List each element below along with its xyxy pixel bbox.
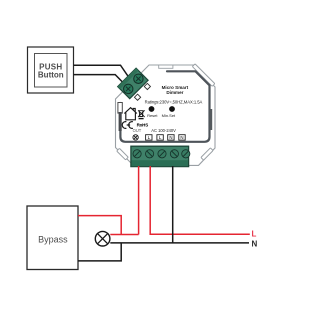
screw pin 3 [158, 150, 166, 158]
screw pin 1 [133, 150, 141, 158]
button Reset [149, 106, 155, 112]
wire L red: terminal 2 to mains L [150, 166, 250, 234]
svg-text:RoHS: RoHS [137, 122, 149, 127]
dimmer module U1 body outline [116, 65, 216, 165]
top mounting tab [159, 65, 173, 68]
svg-text:N: N [169, 135, 172, 140]
svg-text:AC 100-240V: AC 100-240V [151, 128, 176, 133]
terminal legend: lamp symbol [133, 135, 138, 140]
terminal legend: N [179, 135, 185, 140]
terminal legend: L [146, 135, 152, 140]
svg-text:Reset: Reset [147, 113, 158, 118]
svg-text:Bypass: Bypass [38, 235, 68, 245]
wire push-button upper to dimmer switch terminal [74, 65, 130, 77]
push button S1 [28, 47, 74, 93]
bypass box [27, 206, 78, 270]
svg-text:N: N [180, 135, 183, 140]
screw terminal 1 [122, 82, 135, 95]
svg-text:N: N [252, 239, 258, 248]
right mounting tab dark [210, 109, 213, 130]
left mounting slot [118, 103, 122, 114]
lamp E1 [95, 231, 110, 246]
corner flap bottom-right [201, 148, 213, 160]
terminal legend: L [157, 135, 163, 140]
wire entry hole A [144, 83, 150, 89]
corner flap bottom-left [117, 148, 129, 160]
wire push-button lower to dimmer switch terminal [74, 75, 124, 83]
button Min.Set [169, 106, 175, 112]
icon CE mark [122, 122, 133, 129]
wire N black: terminal 4, lamp, bypass to mains N [78, 166, 249, 261]
svg-text:Min.Set: Min.Set [162, 113, 176, 118]
left mounting tab dark [119, 112, 122, 131]
icon indoor-use house [124, 108, 137, 120]
wire entry hole B [134, 94, 140, 100]
svg-text:OUT: OUT [133, 128, 142, 133]
screw pin 4 [170, 150, 178, 158]
svg-text:L: L [252, 230, 257, 239]
svg-text:Ratings:230V~,50HZ,MAX:1.5A: Ratings:230V~,50HZ,MAX:1.5A [145, 99, 203, 104]
wire OUT red: terminal 1 to lamp and bypass [78, 166, 139, 235]
corner flap top-right [192, 64, 214, 86]
icon WEEE crossed-out bin [138, 110, 145, 118]
terminal legend: N [168, 135, 174, 140]
screw pin 5 [182, 150, 190, 158]
screw pin 2 [146, 150, 154, 158]
terminal block TB2 (mains, 5-way) [131, 146, 190, 166]
svg-text:Button: Button [38, 71, 64, 80]
screw terminal 2 [132, 72, 145, 85]
terminal block TB1 (switch input, rotated) [118, 68, 148, 98]
svg-text:Dimmer: Dimmer [166, 90, 183, 95]
dimmer inner cover outline [120, 71, 209, 142]
